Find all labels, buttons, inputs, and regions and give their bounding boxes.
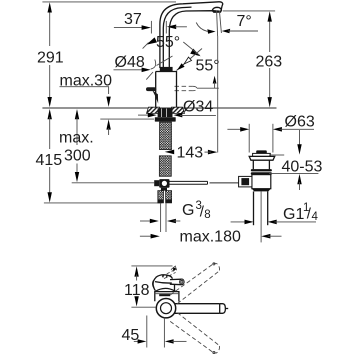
lever dashed (alternate position) [175,86,197,90]
node G 1 1/4 label [231,202,319,224]
svg-text:291: 291 [37,50,64,67]
svg-text:263: 263 [256,53,283,70]
spout swivel range dashed (lower) [170,313,219,353]
node 263 dimension [223,11,282,108]
under-nub edge [174,285,176,292]
svg-text:45: 45 [122,327,140,344]
svg-text:Ø48: Ø48 [115,54,145,71]
threaded shank upper [160,122,172,150]
svg-text:Ø63: Ø63 [285,114,315,131]
node max.180 dimension [140,229,282,246]
dome arc [155,288,175,291]
extension line from spout outlet down (143 right reference) [217,36,219,153]
svg-text:max.180: max.180 [180,229,241,246]
node max.300 dimension [59,109,94,182]
mounting washer hatched [147,107,185,117]
node 291 dimension [37,2,64,107]
node 143 dimension [165,145,218,162]
lever (solid, pointing left) [146,87,158,103]
node max.30 dimension [60,72,113,135]
deck (counter top) [42,108,276,119]
svg-text:40-53: 40-53 [282,158,323,175]
aerator bump [212,7,221,12]
drain pop-up waste body [239,150,275,242]
body [155,292,179,302]
svg-text:55°: 55° [196,58,220,75]
node Ø63 dimension [227,114,314,132]
cross fitting on shank [154,179,169,190]
faucet top view: handle body [153,270,184,301]
faucet body [156,67,177,107]
svg-text:8: 8 [204,209,210,221]
node 37 dimension [114,11,187,34]
C-curve back of handle [153,277,156,290]
svg-text:143: 143 [177,145,204,162]
svg-text:55°: 55° [156,34,180,51]
shank nut below deck [155,117,176,121]
drain: extension lines [248,124,250,153]
svg-text:4: 4 [312,211,319,223]
svg-text:Ø34: Ø34 [183,99,213,116]
node 118 dimension [124,266,177,307]
svg-text:7°: 7° [237,13,252,30]
spout (side view) [160,2,223,68]
node 7 degree indicator [196,11,258,37]
svg-text:415: 415 [36,152,63,169]
svg-text:G1: G1 [283,206,304,223]
spout swivel range dashed (upper) [170,263,219,303]
node 55 degree lower dimension with leader [196,58,220,89]
dashed raised-handle hint [162,270,176,278]
wire top extension line (spout top level) [42,1,176,3]
svg-text:300: 300 [64,148,91,165]
grip [156,275,173,279]
svg-text:G: G [182,202,194,219]
faucet top view: swivel circle [172,304,228,314]
node Ø48 dimension [114,54,156,72]
pop-up rod horizontal [72,181,239,184]
node 55 degree upper dimension [143,34,202,80]
node 415 dimension [36,109,162,203]
nub cylinder [170,278,182,280]
node G 3/8 label [140,200,211,223]
node Ø34 dimension [138,99,216,118]
svg-text:max.: max. [59,130,94,147]
node 45 dimension [122,316,187,348]
supply studs G3/8 [158,191,172,232]
svg-text:37: 37 [124,11,142,28]
node 40-53 dimension [269,130,323,190]
threaded shank lower [159,156,171,177]
